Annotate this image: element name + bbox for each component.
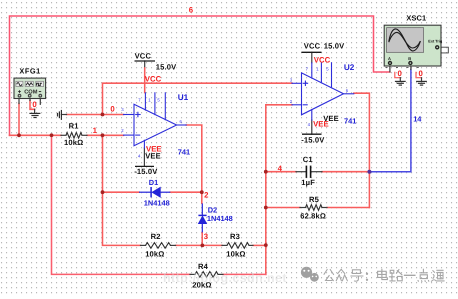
svg-text:3: 3 [204, 232, 209, 241]
svg-text:XFG1: XFG1 [19, 67, 40, 76]
svg-text:http://blog.csdn.net: http://blog.csdn.net [163, 271, 287, 285]
svg-text:VCC: VCC [145, 75, 162, 84]
svg-text:XSC1: XSC1 [406, 14, 426, 23]
svg-text:0: 0 [110, 105, 115, 114]
svg-text:4: 4 [278, 164, 283, 173]
svg-text:15.0V: 15.0V [324, 42, 345, 51]
svg-text:R4: R4 [198, 262, 209, 271]
svg-text:10kΩ: 10kΩ [226, 250, 245, 259]
svg-text:0: 0 [398, 69, 403, 78]
svg-text:1: 1 [93, 126, 98, 135]
svg-text:2: 2 [204, 191, 209, 200]
svg-text:R3: R3 [230, 232, 240, 241]
svg-text:741: 741 [178, 148, 190, 157]
svg-text:1N4148: 1N4148 [144, 198, 170, 207]
svg-text:62.8kΩ: 62.8kΩ [300, 212, 326, 221]
svg-text:-15.0V: -15.0V [134, 167, 158, 176]
svg-text:R1: R1 [69, 122, 80, 131]
svg-text:15.0V: 15.0V [156, 63, 177, 72]
svg-text:VCC: VCC [304, 42, 321, 51]
svg-text:D1: D1 [149, 178, 158, 187]
svg-text:6: 6 [189, 6, 194, 15]
svg-text:14: 14 [413, 115, 422, 124]
svg-text:VEE: VEE [146, 145, 162, 154]
svg-text:10kΩ: 10kΩ [145, 250, 164, 259]
svg-text:-15.0V: -15.0V [301, 136, 325, 145]
svg-text:741: 741 [344, 117, 356, 126]
svg-text:VCC: VCC [314, 55, 331, 64]
svg-text:U2: U2 [344, 63, 355, 72]
svg-text:A: A [388, 56, 391, 61]
svg-text:0: 0 [32, 100, 37, 109]
svg-text:VCC: VCC [135, 51, 152, 60]
svg-text:R2: R2 [151, 232, 161, 241]
svg-text:R5: R5 [309, 195, 320, 204]
svg-text:10kΩ: 10kΩ [64, 138, 83, 147]
svg-text:Ext Trig: Ext Trig [428, 39, 443, 43]
svg-text:0: 0 [419, 69, 424, 78]
svg-text:B: B [408, 56, 411, 61]
svg-text:U1: U1 [178, 93, 189, 102]
svg-text:1µF: 1µF [301, 178, 315, 187]
svg-text:1N4148: 1N4148 [207, 214, 233, 223]
svg-text:VEE: VEE [313, 120, 329, 129]
svg-text:C1: C1 [303, 155, 314, 164]
